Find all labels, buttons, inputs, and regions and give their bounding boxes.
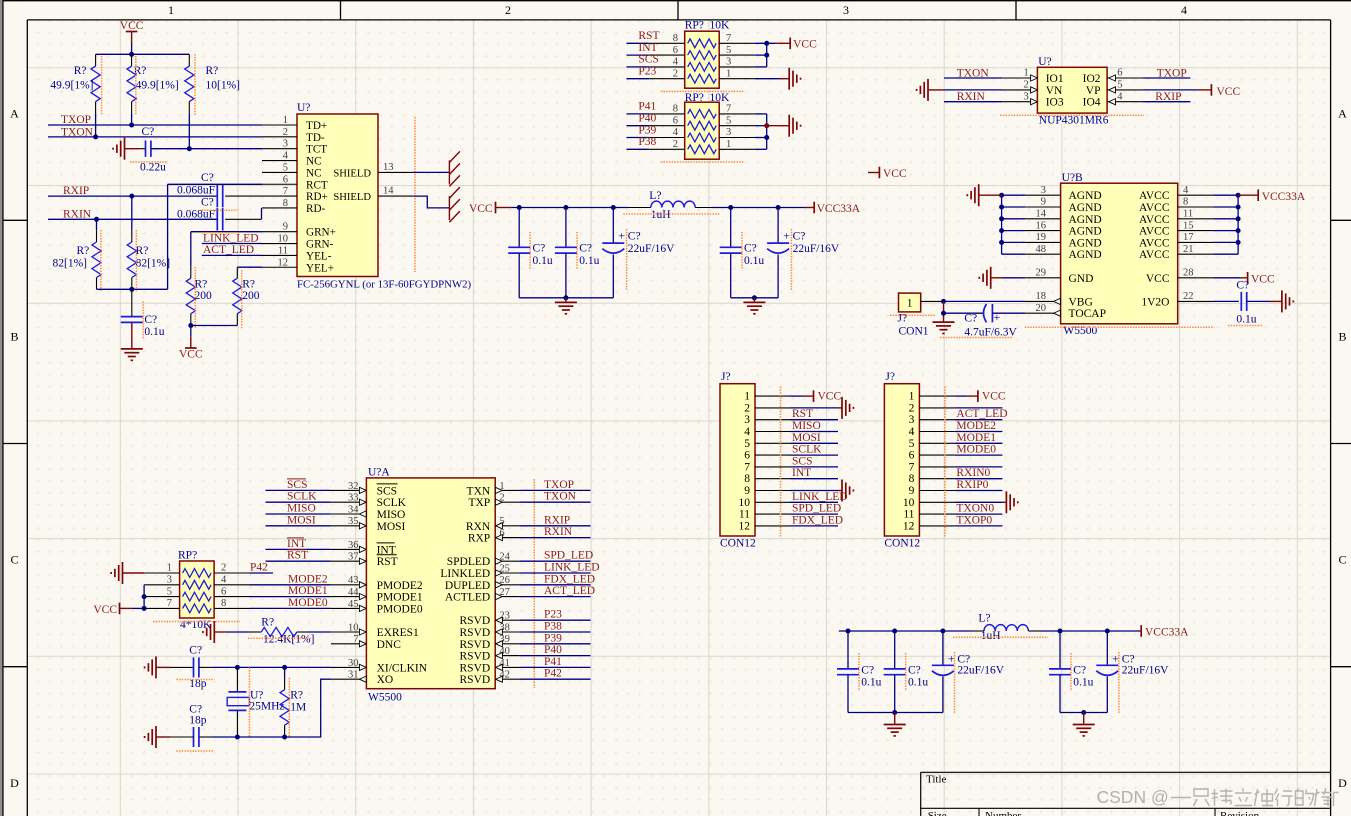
pin 5 NC xyxy=(262,171,297,173)
svg-text:3: 3 xyxy=(1024,91,1029,102)
svg-text:8: 8 xyxy=(283,198,288,209)
CON12 pin 1 xyxy=(919,395,955,397)
power port VCC LED xyxy=(190,336,192,348)
svg-text:P23: P23 xyxy=(638,66,656,78)
resistor R1 49.9 xyxy=(95,54,97,66)
connector J2 CON12 body xyxy=(884,384,919,536)
ground sideways con12 xyxy=(841,480,843,502)
capacitor C5 0.068uF xyxy=(216,185,218,207)
svg-text:82[1%]: 82[1%] xyxy=(53,258,88,270)
RP1 pin 6 / net INT xyxy=(649,54,685,56)
pin 3 TCT xyxy=(262,148,297,150)
svg-text:1: 1 xyxy=(909,391,915,403)
svg-text:EXRES1: EXRES1 xyxy=(377,627,419,639)
svg-text:J?: J? xyxy=(721,371,731,383)
svg-text:TXN: TXN xyxy=(467,485,491,497)
resistor R2 49.9 xyxy=(131,54,133,66)
svg-text:1: 1 xyxy=(726,139,731,150)
RP3 resistor element 4 xyxy=(183,604,212,613)
wire AGND 9 xyxy=(1002,206,1026,208)
U3A pin 33 SCLK xyxy=(331,501,367,503)
wire TXOP xyxy=(48,124,262,126)
svg-text:P40: P40 xyxy=(638,113,656,125)
RP2 pin 8 / net P41 xyxy=(649,113,685,115)
svg-text:49.9[1%]: 49.9[1%] xyxy=(50,80,93,92)
svg-text:VCC: VCC xyxy=(982,391,1006,403)
ground sideways RP2 xyxy=(788,115,790,137)
svg-text:2: 2 xyxy=(221,563,226,574)
error marker R8 xyxy=(248,637,311,639)
capacitor C19 22uF/16V polarized xyxy=(942,631,944,665)
svg-text:8: 8 xyxy=(673,33,678,44)
svg-text:MOSI: MOSI xyxy=(377,521,406,533)
wire gnd rail2 right xyxy=(1060,712,1107,714)
pin 4 NC xyxy=(262,160,297,162)
svg-text:12: 12 xyxy=(739,520,751,532)
junction rail2 e xyxy=(1105,629,1110,634)
junction VBG gnd xyxy=(941,299,946,304)
wire C6 to RD- xyxy=(225,218,261,220)
wire MODE2 xyxy=(250,584,331,586)
wire AGND 19 xyxy=(1002,241,1026,243)
error marker R7 xyxy=(241,270,243,329)
junction AGND bus xyxy=(999,216,1004,221)
svg-text:22uF/16V: 22uF/16V xyxy=(957,665,1004,677)
svg-text:Number: Number xyxy=(985,810,1021,816)
U3B pin 15 AVCC xyxy=(1178,230,1214,232)
U3A pin 2 TXP xyxy=(495,501,519,503)
svg-text:GRN+: GRN+ xyxy=(306,227,336,239)
junction rail2 b xyxy=(892,629,897,634)
junction RP1 bus a xyxy=(764,41,769,46)
svg-text:VN: VN xyxy=(1046,85,1063,97)
U3B pin 17 AVCC xyxy=(1178,241,1214,243)
capacitor C18 0.1u xyxy=(894,631,896,669)
svg-text:29: 29 xyxy=(1036,268,1047,279)
svg-text:INT: INT xyxy=(638,42,657,54)
U3A pin 1 TXN xyxy=(495,489,519,491)
inductor L1 1uH xyxy=(628,207,651,209)
wire to ground xyxy=(791,407,839,409)
wire MODE1 xyxy=(250,596,331,598)
wire P40 u3a xyxy=(519,655,590,657)
error marker C20 xyxy=(1070,653,1072,691)
wire SCS u3a xyxy=(266,489,331,491)
svg-text:4: 4 xyxy=(673,127,679,138)
CON12 pin 8 xyxy=(919,478,955,480)
junction rail c1 xyxy=(517,205,522,210)
svg-text:21: 21 xyxy=(1183,244,1194,255)
svg-text:10[1%]: 10[1%] xyxy=(206,80,241,92)
U3A pin 10 EXRES1 xyxy=(331,631,367,633)
svg-text:SCLK: SCLK xyxy=(377,497,407,509)
junction gnd rail2 xyxy=(892,710,897,715)
svg-text:4: 4 xyxy=(1183,185,1189,196)
junction rail crystal xyxy=(235,735,240,740)
svg-text:11: 11 xyxy=(739,509,750,521)
RP2 pin 6 / net P40 xyxy=(649,125,685,127)
error marker R9 xyxy=(288,678,290,738)
wire TXON nup xyxy=(944,77,1002,79)
connector CON1 body xyxy=(899,293,921,312)
svg-text:TCT: TCT xyxy=(306,144,327,156)
wire RXIP nup xyxy=(1143,101,1191,103)
RP3 pin 2 xyxy=(214,572,249,574)
wire crystal bottom rail xyxy=(212,736,285,738)
svg-text:LINK_LED: LINK_LED xyxy=(792,491,848,503)
svg-text:3: 3 xyxy=(167,575,172,586)
svg-text:Title: Title xyxy=(926,774,947,786)
svg-text:10: 10 xyxy=(278,234,289,245)
capacitor C20 0.1u xyxy=(1059,631,1061,669)
error marker RP2 xyxy=(661,161,744,163)
connector J1 CON12 body xyxy=(720,384,755,536)
RP3 pin 7 xyxy=(144,607,180,609)
wire SCLK u3a xyxy=(266,501,331,503)
svg-text:C?: C? xyxy=(533,243,546,255)
wire to VCC xyxy=(791,395,804,397)
error marker C21 xyxy=(1118,652,1120,713)
capacitor C16 18p xyxy=(199,736,212,738)
zone separators right xyxy=(1331,219,1351,221)
connector U1 FC-256GYNL body xyxy=(297,114,378,277)
svg-text:C: C xyxy=(10,553,18,567)
svg-text:0.068uF: 0.068uF xyxy=(177,185,215,197)
RP1 pin 3 xyxy=(719,66,755,68)
ground sideways C15 xyxy=(155,656,157,678)
wire rail to VCC33A xyxy=(712,207,805,209)
wire FDX_LED u3a xyxy=(519,584,590,586)
RP1 pin 4 / net SCS xyxy=(649,66,685,68)
svg-text:RXIP: RXIP xyxy=(544,514,570,526)
svg-text:9: 9 xyxy=(909,485,915,497)
svg-text:AVCC: AVCC xyxy=(1139,214,1170,226)
svg-text:RSVD: RSVD xyxy=(460,627,491,639)
svg-text:TXOP0: TXOP0 xyxy=(956,514,992,526)
svg-text:CON12: CON12 xyxy=(884,538,920,550)
svg-text:INT: INT xyxy=(792,467,811,479)
U3A pin 5 RXN xyxy=(495,525,519,527)
pin 12 YEL+ xyxy=(262,266,297,268)
svg-text:VCC: VCC xyxy=(93,604,117,616)
error marker C12 xyxy=(790,229,792,291)
svg-text:YEL+: YEL+ xyxy=(306,262,334,274)
svg-text:VCC: VCC xyxy=(1146,273,1170,285)
title block frame xyxy=(921,771,1331,773)
RP3 pin 4 xyxy=(214,584,249,586)
svg-text:PMODE0: PMODE0 xyxy=(377,603,423,615)
CON12 pin 1 xyxy=(755,395,791,397)
svg-text:U?: U? xyxy=(297,102,310,114)
svg-text:6: 6 xyxy=(673,45,678,56)
svg-text:SHIELD: SHIELD xyxy=(333,168,371,179)
svg-text:C?: C? xyxy=(189,645,202,657)
ground sideways con12 xyxy=(1005,491,1007,513)
ground sideways AGND xyxy=(978,184,980,206)
svg-text:19: 19 xyxy=(1036,232,1047,243)
svg-text:RP?: RP? xyxy=(178,550,197,562)
capacitor C14 0.1u xyxy=(1240,292,1242,311)
wire XO down xyxy=(285,679,331,737)
capacitor C11 0.1u xyxy=(730,208,732,248)
svg-text:11: 11 xyxy=(903,509,914,521)
junction rail2 d xyxy=(1058,629,1063,634)
wire AVCC 15 xyxy=(1213,230,1238,232)
U3A pin 32 SCS xyxy=(331,489,367,491)
CON12 pin 11 xyxy=(755,513,791,515)
svg-text:P41: P41 xyxy=(638,101,656,113)
error marker C15 xyxy=(176,679,214,681)
junction AVCC bus xyxy=(1236,216,1241,221)
svg-text:48: 48 xyxy=(1036,244,1047,255)
svg-text:C?: C? xyxy=(144,314,157,326)
error marker LINK_LED xyxy=(201,232,238,234)
svg-text:+: + xyxy=(994,310,1001,324)
wire P41 u3a xyxy=(519,666,590,668)
wire MISO u3a xyxy=(266,513,331,515)
wire LINK_LED con12 xyxy=(791,501,839,503)
RP1 resistor element 4 xyxy=(688,74,717,83)
resistor R3 10 xyxy=(188,54,190,66)
svg-text:0.1u: 0.1u xyxy=(861,676,881,688)
svg-text:FDX_LED: FDX_LED xyxy=(544,573,595,585)
ic U3B W5500 body xyxy=(1061,183,1178,324)
svg-text:VCC: VCC xyxy=(1217,86,1241,98)
svg-text:IO4: IO4 xyxy=(1083,97,1101,109)
svg-text:FDX_LED: FDX_LED xyxy=(792,514,843,526)
junction rail c2 xyxy=(563,205,568,210)
svg-text:5: 5 xyxy=(726,115,731,126)
RP3 resistor element 2 xyxy=(183,580,212,589)
svg-text:8: 8 xyxy=(909,473,915,485)
svg-text:7: 7 xyxy=(353,634,358,645)
svg-text:Size: Size xyxy=(928,810,947,816)
svg-text:7: 7 xyxy=(167,598,172,609)
svg-text:Revision: Revision xyxy=(1220,810,1260,816)
svg-text:RD+: RD+ xyxy=(306,191,328,203)
U3A pin 34 MISO xyxy=(331,513,367,515)
ground sideways RP3 pin1 xyxy=(122,562,124,584)
svg-text:13: 13 xyxy=(383,162,394,173)
capacitor C9 0.1u xyxy=(565,208,567,248)
error marker C10 xyxy=(626,229,628,291)
crystal U4 25MHz xyxy=(236,667,238,692)
wire RP2 gnd bus xyxy=(755,113,767,115)
wire RXIN u3a xyxy=(519,537,590,539)
ground sideways VN xyxy=(927,79,929,101)
svg-text:FC-256GYNL (or 13F-60FGYDPNW2): FC-256GYNL (or 13F-60FGYDPNW2) xyxy=(297,279,472,291)
svg-text:C?: C? xyxy=(861,665,874,677)
svg-text:MODE1: MODE1 xyxy=(956,432,996,444)
error marker RP3 xyxy=(153,621,240,623)
U2 pin 2 VN xyxy=(1002,89,1037,91)
svg-text:RSVD: RSVD xyxy=(460,615,491,627)
wire MODE2 con12 xyxy=(955,431,1003,433)
power port VCC con12 xyxy=(977,390,979,402)
junction RP3 bus a xyxy=(142,594,147,599)
wire AVCC 21 xyxy=(1213,253,1238,255)
CON12 pin 2 xyxy=(919,407,955,409)
svg-text:22uF/16V: 22uF/16V xyxy=(793,243,840,255)
wire RXIN xyxy=(48,218,217,220)
svg-text:5: 5 xyxy=(909,438,915,450)
wire VCC rail xyxy=(510,207,628,209)
svg-text:R?: R? xyxy=(74,65,87,77)
svg-text:4: 4 xyxy=(1181,3,1187,17)
junction RXIP xyxy=(129,194,134,199)
U3A pin 38 RSVD xyxy=(495,631,519,633)
pin 6 RCT xyxy=(262,183,297,185)
svg-text:MODE1: MODE1 xyxy=(288,585,328,597)
svg-text:LINK_LED: LINK_LED xyxy=(203,232,259,244)
svg-text:SCLK: SCLK xyxy=(792,444,822,456)
svg-text:7: 7 xyxy=(744,461,750,473)
svg-text:P42: P42 xyxy=(250,562,268,574)
svg-text:RCT: RCT xyxy=(306,179,328,191)
svg-text:10: 10 xyxy=(348,622,359,633)
svg-text:VCC33A: VCC33A xyxy=(1262,191,1306,203)
svg-text:SCS: SCS xyxy=(287,479,307,491)
svg-text:RST: RST xyxy=(638,30,659,42)
wire AVCC 4 xyxy=(1213,194,1238,196)
error marker C19 xyxy=(954,652,956,713)
power port VCC nup xyxy=(1210,84,1212,96)
U3A pin 41 RSVD xyxy=(495,666,519,668)
svg-text:SHIELD: SHIELD xyxy=(333,192,371,203)
svg-text:3: 3 xyxy=(283,139,288,150)
svg-text:8: 8 xyxy=(221,598,226,609)
svg-text:18: 18 xyxy=(1036,291,1047,302)
svg-text:XO: XO xyxy=(377,674,394,686)
junction rail c3 xyxy=(611,205,616,210)
wire SPD_LED u3a xyxy=(519,560,590,562)
svg-text:12: 12 xyxy=(903,520,915,532)
svg-text:1: 1 xyxy=(168,3,174,17)
junction RP2 bus b xyxy=(764,135,769,140)
svg-text:D: D xyxy=(1338,776,1347,790)
svg-text:TXOP: TXOP xyxy=(544,479,574,491)
svg-text:RSVD: RSVD xyxy=(460,651,491,663)
svg-text:7: 7 xyxy=(726,104,731,115)
wire shield 13 xyxy=(413,171,449,173)
svg-text:C?: C? xyxy=(201,172,214,184)
svg-text:C: C xyxy=(1338,553,1346,567)
CON1 pin 1 xyxy=(921,300,943,302)
svg-text:RXIP: RXIP xyxy=(63,185,89,197)
svg-text:L?: L? xyxy=(649,190,661,202)
U3A pin 44 PMODE1 xyxy=(331,596,367,598)
wire CON1 to VBG xyxy=(943,300,1025,302)
CON12 pin 4 xyxy=(919,431,955,433)
wire AVCC 11 xyxy=(1213,218,1238,220)
wire TXON u3a xyxy=(519,501,590,503)
svg-text:1: 1 xyxy=(726,68,731,79)
svg-text:+: + xyxy=(783,229,790,243)
svg-text:ACTLED: ACTLED xyxy=(445,592,490,604)
svg-text:PMODE1: PMODE1 xyxy=(377,592,423,604)
junction gnd rail right xyxy=(752,295,757,300)
svg-text:20: 20 xyxy=(1036,303,1047,314)
error marker C6 xyxy=(201,209,237,211)
svg-text:SPD_LED: SPD_LED xyxy=(792,503,841,515)
svg-text:MISO: MISO xyxy=(377,509,406,521)
svg-text:W5500: W5500 xyxy=(368,692,402,704)
svg-text:6: 6 xyxy=(744,450,750,462)
svg-text:A: A xyxy=(1338,107,1347,121)
wire SCS con12 xyxy=(791,466,839,468)
svg-text:U?B: U?B xyxy=(1062,172,1083,184)
svg-text:MODE2: MODE2 xyxy=(956,420,996,432)
wire filter gnd rail right xyxy=(731,297,778,299)
wire RP1 pin1 to ground xyxy=(755,78,779,80)
RP3 pin 1 xyxy=(144,572,180,574)
svg-text:2: 2 xyxy=(744,402,750,414)
capacitor C12 22uF/16V polarized xyxy=(777,208,779,244)
wire gnd rail2 left xyxy=(848,712,943,714)
svg-text:RD-: RD- xyxy=(306,203,326,215)
svg-text:AVCC: AVCC xyxy=(1139,202,1170,214)
svg-text:RST: RST xyxy=(377,556,398,568)
error marker R3 xyxy=(194,54,196,115)
svg-text:MODE0: MODE0 xyxy=(956,444,996,456)
RP2 pin 5 xyxy=(719,125,755,127)
svg-text:3: 3 xyxy=(843,3,849,17)
svg-text:DUPLED: DUPLED xyxy=(445,580,490,592)
svg-text:J?: J? xyxy=(898,313,908,325)
svg-text:VCC: VCC xyxy=(179,349,203,361)
svg-text:AGND: AGND xyxy=(1069,237,1102,249)
svg-text:2: 2 xyxy=(909,402,915,414)
capacitor C10 22uF/16V polarized xyxy=(612,208,614,244)
svg-text:TXOP: TXOP xyxy=(61,114,91,126)
svg-text:P38: P38 xyxy=(638,136,656,148)
wire C13 to TOCAP xyxy=(992,312,1025,314)
RP3 pin 8 xyxy=(214,607,249,609)
error marker C13 xyxy=(940,337,1013,339)
svg-text:6: 6 xyxy=(283,174,288,185)
wire P42 u3a xyxy=(519,678,590,680)
svg-text:C?: C? xyxy=(628,231,641,243)
svg-text:9: 9 xyxy=(1041,197,1046,208)
svg-text:45: 45 xyxy=(348,599,359,610)
error marker R2 xyxy=(135,56,137,115)
svg-text:11: 11 xyxy=(278,245,288,256)
svg-text:L?: L? xyxy=(978,613,990,625)
chassis ground 13 xyxy=(448,160,450,184)
RP3 pin 3 xyxy=(144,584,180,586)
svg-text:200: 200 xyxy=(242,290,260,302)
wire RST u3a xyxy=(266,560,331,562)
wire P23 u3a xyxy=(519,619,590,621)
error marker C11 xyxy=(741,232,743,269)
chassis ground 14 xyxy=(448,196,450,220)
error marker con12 xyxy=(944,387,946,537)
wire INT u3a xyxy=(266,548,331,550)
junction gnd rail2 right xyxy=(1081,710,1086,715)
wire TOCAP branch xyxy=(944,312,984,314)
ic U3A W5500 body xyxy=(366,478,495,689)
svg-text:0.1u: 0.1u xyxy=(533,255,553,267)
svg-text:MOSI: MOSI xyxy=(792,432,821,444)
error marker U4 xyxy=(248,667,250,737)
CON12 pin 5 xyxy=(919,442,955,444)
CON12 pin 10 xyxy=(755,501,791,503)
error marker C14 xyxy=(1228,325,1262,327)
svg-text:A: A xyxy=(10,107,19,121)
power port VCC33A filter xyxy=(805,207,814,209)
svg-text:10: 10 xyxy=(903,497,915,509)
wire shield 14 xyxy=(413,196,449,208)
